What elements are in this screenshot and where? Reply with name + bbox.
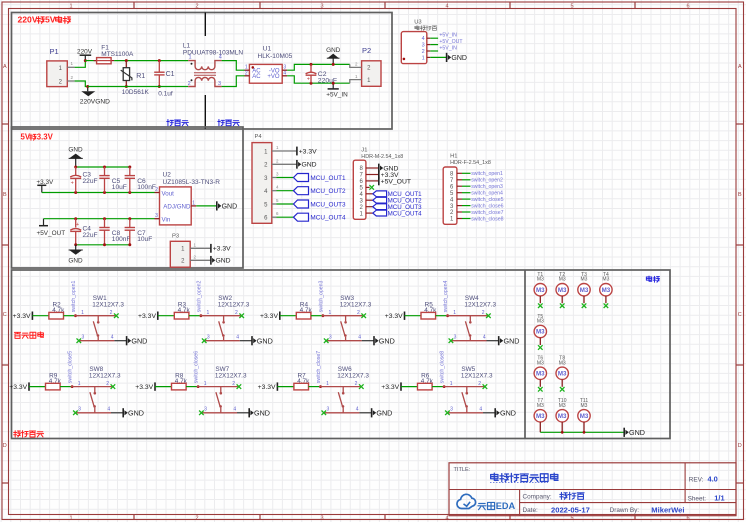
svg-text:1: 1	[69, 516, 72, 522]
resistor R2	[49, 302, 65, 320]
svg-text:2: 2	[357, 310, 360, 316]
svg-text:4: 4	[479, 407, 482, 413]
junction C3 bottom	[74, 191, 77, 194]
no-connect X at SW7 pin3	[199, 411, 204, 416]
junction switch_close5 node	[71, 385, 74, 388]
ground flag GND standoffs	[624, 428, 645, 437]
svg-text:M3: M3	[536, 413, 545, 420]
svg-text:L1: L1	[183, 43, 191, 50]
ground flag GND at P4	[297, 160, 317, 169]
power flag +5V_OUT at J1	[379, 177, 411, 186]
no-connect X at SW3 pin2	[361, 313, 366, 318]
svg-text:6: 6	[686, 4, 689, 10]
pin 4 of P4	[272, 185, 294, 191]
pin 2 of P2	[350, 62, 362, 68]
junction C7 top	[128, 217, 131, 220]
wire P1 pin1 to 220V node	[75, 61, 86, 68]
svg-text:ADJ/GND: ADJ/GND	[163, 203, 191, 210]
net label switch_open3	[471, 184, 503, 190]
svg-text:B: B	[738, 192, 742, 198]
title block Date label	[523, 507, 538, 514]
svg-text:M3: M3	[537, 277, 544, 283]
svg-text:MTS1100A: MTS1100A	[101, 51, 134, 58]
svg-text:M3: M3	[581, 277, 588, 283]
pin 2 of P1	[67, 75, 74, 81]
standoff T7	[534, 398, 546, 432]
svg-text:switch_close5: switch_close5	[471, 197, 503, 203]
switch SW8	[71, 366, 121, 413]
junction C4 bottom	[74, 243, 77, 246]
svg-text:HDR-F-2.54_1x8: HDR-F-2.54_1x8	[450, 160, 491, 166]
svg-text:switch_open4: switch_open4	[471, 191, 503, 197]
svg-text:M3: M3	[581, 403, 588, 409]
svg-text:2: 2	[188, 81, 191, 87]
capacitor C7	[125, 219, 153, 245]
net label switch_open2	[471, 178, 503, 184]
net label switch_close6 vertical	[194, 351, 200, 383]
svg-text:Company:: Company:	[523, 493, 552, 500]
pin 4 of J1 wire	[366, 193, 373, 195]
svg-text:+3.3V: +3.3V	[381, 384, 399, 391]
svg-text:1: 1	[207, 310, 210, 316]
power flag +3.3V at SW2	[138, 312, 158, 321]
wire SW4 pin4 to GND	[487, 340, 499, 342]
net label switch_close7 vertical	[316, 351, 322, 383]
wire R2 to SW1 pin1	[64, 315, 76, 317]
svg-text:switch_open1: switch_open1	[71, 280, 77, 312]
junction C1 bottom	[158, 85, 161, 88]
svg-text:+: +	[76, 222, 79, 228]
resistor R5	[421, 302, 437, 320]
junction R1 top	[125, 59, 128, 62]
junction C6 bottom	[128, 191, 131, 194]
header J1	[353, 147, 403, 219]
wire SW8 pin4 to GND	[111, 412, 123, 414]
section note 关闭接钮	[14, 431, 44, 438]
svg-text:3: 3	[454, 335, 457, 341]
pin 6 of J1 wire	[366, 180, 379, 182]
svg-text:GND: GND	[500, 408, 516, 417]
junction T10 bus	[561, 431, 564, 434]
switch SW2	[200, 295, 250, 341]
svg-text:H1: H1	[450, 154, 457, 160]
svg-text:AC: AC	[252, 74, 261, 80]
svg-text:3: 3	[82, 335, 85, 341]
svg-text:switch_open2: switch_open2	[197, 280, 203, 312]
svg-text:C: C	[738, 312, 742, 318]
power flag +3.3V at SW4	[385, 312, 405, 321]
svg-text:switch_close8: switch_close8	[471, 216, 503, 222]
svg-text:1: 1	[81, 310, 84, 316]
pin 2 of P4	[272, 158, 297, 164]
svg-text:Sheet:: Sheet:	[688, 495, 707, 502]
no-connect X at SW4 pin2	[486, 313, 491, 318]
capacitor C2	[306, 64, 337, 84]
svg-text:220V: 220V	[77, 49, 93, 56]
svg-text:3: 3	[320, 516, 323, 522]
svg-text:4: 4	[422, 36, 425, 42]
wire L1 pin3 to U1 pin2	[222, 76, 245, 87]
svg-text:M3: M3	[537, 319, 544, 325]
fuse F1	[94, 44, 134, 64]
svg-text:22uF: 22uF	[83, 232, 98, 239]
net port MCU_OUT4 at J1	[373, 210, 422, 217]
svg-text:1/1: 1/1	[714, 494, 724, 503]
junction C2 bottom	[310, 82, 313, 85]
svg-text:M3: M3	[602, 277, 609, 283]
svg-text:5: 5	[570, 516, 573, 522]
svg-text:2: 2	[478, 381, 481, 387]
section title 5V转3.3V	[21, 133, 54, 142]
wire F1 to L1 pin1	[114, 60, 188, 62]
wire 220V node to F1	[85, 60, 96, 62]
switch SW1	[74, 295, 124, 341]
svg-text:Vin: Vin	[162, 216, 171, 223]
ground flag GND at SW6	[372, 408, 393, 417]
svg-text:1: 1	[326, 381, 329, 387]
switch SW3	[322, 295, 372, 341]
svg-text:M3: M3	[536, 287, 545, 294]
power flag +5V_OUT	[37, 219, 66, 237]
ground flag GND at SW5	[495, 408, 516, 417]
standoff T8	[556, 356, 568, 392]
svg-text:GND: GND	[301, 162, 316, 169]
wire GND rail top group	[76, 166, 130, 168]
capacitor C8	[99, 219, 130, 245]
svg-text:MCU_OUT4: MCU_OUT4	[310, 215, 346, 222]
junction R1 bottom	[125, 85, 128, 88]
junction 220VGND node	[86, 85, 89, 88]
svg-text:4: 4	[219, 55, 222, 61]
svg-text:+3.3V: +3.3V	[13, 313, 31, 320]
no-connect X at SW2 pin2	[239, 313, 244, 318]
power flag +3.3V at P4	[297, 147, 317, 156]
ground 220VGND	[80, 87, 110, 106]
svg-text:HLK-10M05: HLK-10M05	[258, 53, 293, 60]
svg-text:4: 4	[445, 516, 448, 522]
svg-text:3: 3	[320, 4, 323, 10]
header H1	[443, 154, 491, 225]
title block frame	[449, 463, 736, 516]
svg-text:4: 4	[356, 407, 359, 413]
wire +3.3V to R4	[280, 315, 297, 317]
svg-text:M3: M3	[558, 413, 567, 420]
svg-text:+3.3V: +3.3V	[385, 313, 403, 320]
ground flag GND at SW3	[374, 336, 395, 345]
pin 6 of P4	[272, 211, 294, 217]
common-mode choke L1	[183, 43, 244, 87]
ground flag GND at SW2	[252, 336, 273, 345]
no-connect X at SW5 pin3	[445, 411, 450, 416]
ground flag GND at P3	[211, 256, 231, 265]
pin 1 of P2	[350, 74, 362, 83]
pin 3 of P4	[272, 172, 294, 178]
svg-text:4: 4	[107, 407, 110, 413]
svg-text:GND: GND	[504, 336, 520, 345]
power flag 220V	[77, 49, 93, 61]
capacitor C4	[70, 219, 97, 245]
wire bottom rail P1 to L1 pin2	[88, 86, 189, 88]
svg-text:2: 2	[355, 381, 358, 387]
svg-text:+: +	[307, 77, 310, 83]
svg-text:4: 4	[358, 335, 361, 341]
section note 螺柱	[646, 276, 659, 282]
title block Drawn By label	[610, 507, 640, 514]
svg-text:P3: P3	[172, 233, 179, 239]
junction C5 top	[103, 166, 106, 169]
svg-text:GND: GND	[128, 408, 144, 417]
section title 220V转5V电路	[18, 15, 71, 25]
junction switch_open3 node	[322, 314, 325, 317]
no-connect X at SW8 pin2	[111, 384, 116, 389]
svg-text:P1: P1	[50, 47, 59, 56]
resistor R3	[174, 302, 190, 320]
svg-text:2022-05-17: 2022-05-17	[551, 505, 590, 514]
svg-text:+3.3V: +3.3V	[135, 384, 153, 391]
no-connect X at SW8 pin3	[73, 411, 78, 416]
wire SW3 pin4 to GND	[362, 340, 374, 342]
ground flag GND at SW7	[249, 408, 270, 417]
pin 8 of J1 wire	[366, 167, 379, 169]
pin 5 of P4	[272, 198, 294, 204]
no-connect X at SW2 pin3	[202, 338, 207, 343]
wire +3.3V rail	[42, 192, 155, 194]
wire GND rail bottom group	[76, 244, 130, 246]
wire R6 to SW5 pin1	[432, 386, 444, 388]
wire +3.3V to R6	[401, 386, 418, 388]
svg-text:+3.3V: +3.3V	[9, 384, 27, 391]
svg-text:MCU_OUT2: MCU_OUT2	[310, 188, 346, 195]
power flag +3.3V at SW1	[13, 312, 33, 321]
svg-text:2: 2	[155, 187, 158, 193]
svg-text:12X12X7.3: 12X12X7.3	[218, 301, 250, 308]
power flag +3.3V at SW8	[9, 382, 29, 391]
pin 2 of J1 wire	[366, 206, 373, 208]
pin 1 of P1	[67, 61, 74, 67]
pin 8 of H1 wire	[457, 172, 471, 174]
svg-text:GND: GND	[376, 408, 392, 417]
svg-text:4: 4	[111, 335, 114, 341]
net label switch_close8	[471, 216, 503, 222]
pin 7 of H1 wire	[457, 179, 471, 181]
no-connect X at SW5 pin2	[483, 384, 488, 389]
pin 2 of P3	[190, 254, 211, 260]
net label switch_close5 vertical	[68, 351, 74, 383]
svg-text:switch_close5: switch_close5	[68, 351, 74, 383]
svg-text:GND: GND	[131, 336, 147, 345]
ground GND top of 3.3V section	[68, 147, 83, 168]
svg-text:J1: J1	[361, 147, 367, 153]
pin 3 Vin of U2	[155, 213, 160, 219]
title block Sheet value 1/1	[714, 494, 724, 503]
svg-text:GND: GND	[254, 408, 270, 417]
net port MCU_OUT1 at P4	[294, 174, 346, 182]
no-connect X at SW1 pin3	[77, 338, 82, 343]
wire +3.3V to R2	[32, 315, 49, 317]
svg-text:+: +	[71, 180, 74, 186]
svg-text:12X12X7.3: 12X12X7.3	[89, 372, 121, 379]
svg-text:M3: M3	[602, 287, 611, 294]
pin 6 of H1 wire	[457, 185, 471, 187]
svg-text:5: 5	[570, 4, 573, 10]
standoff T10	[556, 398, 568, 432]
svg-text:3: 3	[218, 81, 221, 87]
pin 4 of H1 wire	[457, 198, 471, 200]
svg-text:M3: M3	[537, 360, 544, 366]
title block Sheet label	[688, 495, 707, 502]
standoff T4	[600, 272, 612, 308]
ground flag GND at J1	[379, 164, 399, 173]
ground GND bottom of 3.3V section	[68, 245, 83, 264]
svg-text:M3: M3	[580, 287, 589, 294]
pin 1 of U3 wire	[427, 56, 447, 58]
note 做隔离 right	[218, 120, 240, 126]
no-connect X at SW6 pin3	[322, 411, 327, 416]
svg-text:U3: U3	[414, 19, 421, 25]
pin 3 of J1 wire	[366, 199, 373, 201]
power flag +3.3V left	[36, 179, 54, 193]
svg-text:4: 4	[445, 4, 448, 10]
svg-text:switch_open4: switch_open4	[443, 280, 449, 312]
svg-text:4: 4	[283, 70, 286, 76]
svg-text:12X12X7.3: 12X12X7.3	[340, 301, 372, 308]
svg-text:MCU_OUT3: MCU_OUT3	[310, 201, 346, 208]
svg-text:A: A	[738, 64, 742, 70]
wire P1 pin2 to 220VGND node	[75, 81, 88, 87]
ground GND at C2	[326, 47, 341, 64]
no-connect X at SW4 pin3	[449, 338, 454, 343]
svg-text:2: 2	[422, 49, 425, 55]
svg-text:2: 2	[195, 4, 198, 10]
net label switch_open1	[471, 171, 503, 177]
wire +3.3V to R9	[29, 386, 46, 388]
wire SW7 pin4 to GND	[237, 412, 249, 414]
wire SW5 pin4 to GND	[483, 412, 495, 414]
svg-text:R1: R1	[136, 73, 145, 80]
svg-text:12X12X7.3: 12X12X7.3	[337, 372, 369, 379]
svg-text:+5V_IN: +5V_IN	[326, 92, 348, 99]
capacitor C5	[99, 167, 127, 193]
net label +5V_IN pin4	[439, 33, 457, 39]
ground flag GND at SW1	[127, 336, 148, 345]
junction C2 top	[310, 63, 313, 66]
svg-text:MikerWei: MikerWei	[651, 505, 684, 514]
svg-text:5V: 5V	[45, 15, 56, 25]
switch SW4	[446, 295, 496, 341]
svg-text:Date:: Date:	[523, 507, 538, 514]
svg-text:2: 2	[110, 310, 113, 316]
title 电源按键原理图	[490, 473, 558, 482]
junction switch_open1 node	[74, 314, 77, 317]
svg-text:0.1uf: 0.1uf	[158, 90, 173, 97]
svg-text:REV:: REV:	[689, 476, 704, 483]
svg-text:GND: GND	[257, 336, 273, 345]
svg-text:10D561K: 10D561K	[122, 89, 150, 96]
wire R7 to SW6 pin1	[309, 386, 321, 388]
svg-text:switch_open3: switch_open3	[319, 280, 325, 312]
svg-text:switch_open3: switch_open3	[471, 184, 503, 190]
no-connect X at SW6 pin2	[359, 384, 364, 389]
svg-text:GND: GND	[451, 55, 467, 62]
svg-text:1: 1	[204, 381, 207, 387]
switch SW6	[319, 366, 369, 413]
svg-text:100nF: 100nF	[112, 236, 131, 243]
standoff T1	[534, 272, 546, 308]
svg-text:1: 1	[329, 310, 332, 316]
svg-text:switch_close7: switch_close7	[471, 210, 503, 216]
svg-text:GND: GND	[326, 47, 341, 54]
svg-text:TITLE:: TITLE:	[454, 467, 471, 473]
net port MCU_OUT1 at J1	[373, 191, 422, 198]
drawn by MikerWei	[651, 505, 684, 514]
svg-text:+5V_IN: +5V_IN	[439, 33, 457, 39]
svg-text:B: B	[3, 192, 7, 198]
net label switch_close6	[471, 204, 503, 210]
junction C8 top	[103, 217, 106, 220]
svg-text:2: 2	[232, 381, 235, 387]
connector P1	[47, 47, 68, 87]
svg-text:D: D	[738, 443, 742, 449]
svg-text:+3.3V: +3.3V	[299, 148, 317, 155]
wire R5 to SW4 pin1	[436, 315, 448, 317]
wire standoff ground bus	[540, 431, 624, 433]
svg-text:GND: GND	[379, 336, 395, 345]
svg-text:HDR-M-2.54_1x8: HDR-M-2.54_1x8	[361, 154, 403, 160]
svg-text:22uF: 22uF	[83, 178, 98, 185]
svg-text:+5V_OUT: +5V_OUT	[37, 230, 66, 237]
pin 1 of P3	[190, 242, 211, 248]
wire U2 ADJ to GND flag	[196, 205, 216, 207]
junction C3 top	[74, 166, 77, 169]
svg-text:M3: M3	[580, 413, 589, 420]
svg-text:2: 2	[235, 310, 238, 316]
pin 1 of H1 wire	[457, 218, 471, 220]
company name 魏聪聪	[560, 492, 584, 499]
junction C6 top	[128, 166, 131, 169]
svg-text:1: 1	[453, 310, 456, 316]
junction C1 top	[158, 59, 161, 62]
no-connect X at SW1 pin2	[114, 313, 119, 318]
junction switch_close6 node	[197, 385, 200, 388]
junction switch_open4 node	[446, 314, 449, 317]
wire L1 pin4 to U1 pin1	[222, 61, 245, 71]
logo 立创EDA	[457, 494, 516, 510]
svg-text:2: 2	[482, 310, 485, 316]
varistor R1	[121, 61, 150, 97]
svg-text:4: 4	[233, 407, 236, 413]
svg-text:M3: M3	[536, 371, 545, 378]
power flag +3.3V at SW7	[135, 382, 155, 391]
wire SW1 pin4 to GND	[114, 340, 126, 342]
wire +3.3V to R5	[405, 315, 422, 317]
svg-text:3.3V: 3.3V	[37, 133, 54, 142]
wire R9 to SW8 pin1	[60, 386, 72, 388]
junction switch_close7 node	[319, 385, 322, 388]
net label switch_open3 vertical	[319, 280, 325, 312]
svg-text:100nF: 100nF	[137, 184, 156, 191]
pin 4 of U3 wire	[427, 37, 438, 39]
svg-text:+5V_OUT: +5V_OUT	[381, 178, 411, 185]
svg-text:Drawn By:: Drawn By:	[610, 507, 640, 514]
junction GND node	[332, 63, 335, 66]
net label switch_open1 vertical	[71, 280, 77, 312]
svg-text:1: 1	[192, 200, 195, 206]
svg-text:3: 3	[327, 407, 330, 413]
svg-text:1: 1	[188, 55, 191, 61]
net label switch_close5	[471, 197, 503, 203]
title block REV value 4.0	[708, 475, 718, 484]
capacitor C6	[125, 167, 156, 193]
